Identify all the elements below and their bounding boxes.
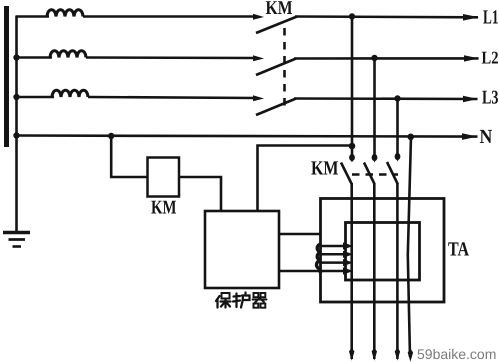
supply busbar <box>4 6 9 147</box>
TA inner box <box>346 223 420 281</box>
wire: L3 drop <box>396 99 399 158</box>
node: tap junction on L1 drop <box>349 143 356 150</box>
wire: L2 drop <box>373 58 376 158</box>
node: L1 drop junction <box>349 13 355 19</box>
arrow L1 <box>463 14 479 21</box>
KM lower contact pole 3 terminal <box>395 153 401 160</box>
TA primary winding turn 1 <box>321 245 346 248</box>
wire: KM coil to protector <box>179 177 221 211</box>
node: feeder-L3 junction <box>13 94 19 100</box>
wire: L1 drop <box>351 17 354 159</box>
wire: left vertical feeder <box>15 16 18 231</box>
wire: N branch down to KM coil <box>111 136 147 177</box>
KM lower contact pole 3 blade <box>387 162 398 184</box>
wire: phase L1 left segment <box>16 15 50 18</box>
inductor coil on L1 <box>47 10 83 17</box>
arrow: bottom phase 1 <box>349 348 354 361</box>
svg-text:TA: TA <box>448 239 469 261</box>
node: feeder-L2 junction <box>13 54 19 60</box>
protector box <box>205 211 279 288</box>
svg-text:59baike.com: 59baike.com <box>417 346 496 362</box>
node: N branch to KM coil <box>108 133 114 139</box>
KM coil box <box>148 158 180 197</box>
wire: N drop <box>408 137 411 358</box>
arrow: bottom neutral <box>408 349 413 362</box>
TA primary winding turn 4 <box>321 270 346 273</box>
arrow N <box>462 133 478 140</box>
arrow: bottom phase 3 <box>395 348 400 361</box>
wire: L1 tap to protector <box>258 146 353 212</box>
KM main contact pole 3 terminal <box>253 95 264 101</box>
node: L2 drop junction <box>371 55 377 61</box>
svg-text:L3: L3 <box>482 88 499 109</box>
KM main contact pole 3 blade <box>256 99 296 116</box>
器 <box>253 293 267 308</box>
KM top linkage dashed line <box>283 28 286 110</box>
wire: L2 drop lower <box>373 183 376 359</box>
KM lower contact pole 2 blade <box>364 163 375 185</box>
KM main contact pole 2 blade <box>256 59 296 76</box>
arrow: bottom phase 2 <box>372 348 377 361</box>
wire: phase L2 left segment <box>16 56 53 59</box>
wire: L3 to contact <box>88 97 257 98</box>
wire: L1 to contact <box>83 15 257 18</box>
TA winding left loops <box>317 244 322 274</box>
svg-text:KM: KM <box>151 198 177 219</box>
ground <box>3 233 30 247</box>
wire: L1 contact to arrow <box>295 15 478 18</box>
wire: protector to TA lower <box>279 270 321 273</box>
wire: L3 drop lower <box>396 183 399 359</box>
inductor coil on L3 <box>52 90 88 97</box>
svg-text:L2: L2 <box>482 48 499 68</box>
wire: phase L3 left segment <box>16 96 55 99</box>
护 <box>233 293 250 308</box>
svg-text:N: N <box>480 126 493 148</box>
node: feeder-N junction <box>13 132 19 138</box>
node: N drop junction <box>407 134 414 141</box>
wire: L1 drop lower <box>350 183 353 359</box>
wire: L3 contact to arrow <box>294 97 478 100</box>
wire: L2 contact to arrow <box>294 57 479 60</box>
wire: protector to TA upper <box>279 233 321 236</box>
KM main contact pole 2 terminal <box>253 55 264 61</box>
TA primary winding turn 3 <box>321 261 346 264</box>
KM main contact pole 1 blade <box>256 17 297 34</box>
svg-text:KM: KM <box>266 0 293 19</box>
wire: L2 to contact <box>86 56 257 59</box>
保 <box>216 293 231 308</box>
KM lower contact pole 1 blade <box>341 163 352 185</box>
inductor coil on L2 <box>50 51 86 58</box>
label 保护器 (drawn strokes) <box>216 293 267 308</box>
TA primary winding turn 2 <box>321 253 346 256</box>
TA outer box <box>321 199 445 303</box>
arrow L3 <box>463 96 478 102</box>
node: L3 drop junction <box>394 95 400 101</box>
KM lower linkage dashed line <box>352 173 398 176</box>
arrow L2 <box>464 55 479 61</box>
svg-text:L1: L1 <box>483 7 499 29</box>
svg-text:KM: KM <box>311 158 339 180</box>
KM lower contact pole 1 terminal <box>349 154 355 161</box>
KM lower contact pole 2 terminal <box>372 154 378 161</box>
KM main contact pole 1 terminal <box>253 14 264 20</box>
wire: neutral N <box>16 136 478 137</box>
